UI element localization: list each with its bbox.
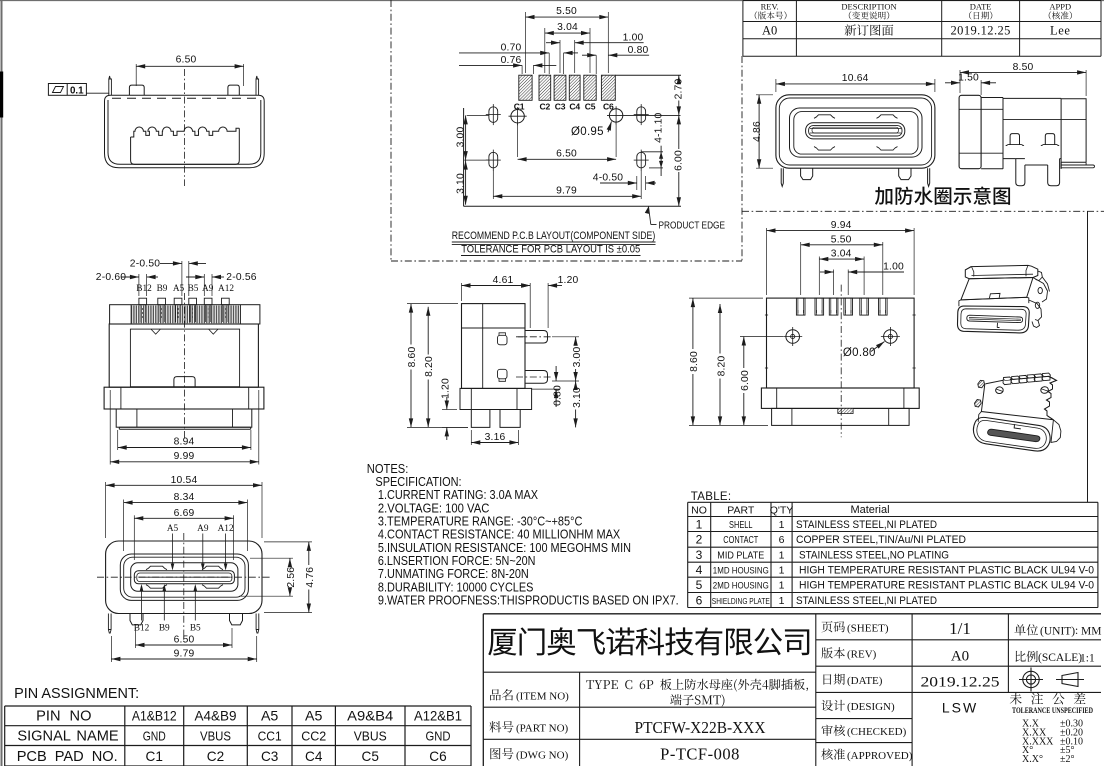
svg-text:4.76: 4.76: [305, 567, 316, 588]
svg-text:RECOMMEND P.C.B LAYOUT(COMPONE: RECOMMEND P.C.B LAYOUT(COMPONENT SIDE): [452, 230, 656, 242]
pcb dim 5.50: [525, 12, 527, 73]
svg-text:Material: Material: [850, 504, 889, 516]
view E bottom strip: [119, 426, 250, 428]
svg-text:9.99: 9.99: [174, 451, 195, 462]
view F dim 1.20 bottom: [442, 409, 457, 411]
pcb pad labels: [514, 101, 614, 111]
svg-text:3.00: 3.00: [572, 347, 583, 368]
svg-text:1:1: 1:1: [1080, 653, 1095, 665]
svg-text:9.94: 9.94: [831, 220, 852, 231]
svg-text:1: 1: [779, 550, 785, 562]
svg-text:Ø0.80: Ø0.80: [843, 347, 876, 359]
svg-text:2.70: 2.70: [673, 79, 684, 100]
svg-text:5.50: 5.50: [831, 234, 852, 245]
pcb dim 1.00: [559, 40, 561, 73]
view A side wire pin right: [256, 76, 259, 95]
view F dim 4.61: [461, 283, 463, 301]
svg-text:4.61: 4.61: [493, 275, 514, 286]
layout separator dash-dot vertical left of PCB panel: [390, 0, 392, 261]
svg-text:(SCALE): (SCALE): [1038, 652, 1082, 664]
view E dim 2-0.56: [203, 274, 205, 296]
svg-text:3: 3: [696, 548, 703, 562]
svg-text:TABLE:: TABLE:: [691, 491, 732, 503]
svg-text:10.64: 10.64: [842, 73, 869, 84]
company name: [488, 627, 809, 655]
svg-text:6.50: 6.50: [556, 148, 577, 159]
view D2 latch dimples: [1006, 144, 1024, 147]
svg-text:(REV): (REV): [847, 649, 877, 661]
svg-text:3.04: 3.04: [557, 22, 578, 33]
svg-text:Lee: Lee: [1050, 24, 1071, 38]
view D wire pin left: [781, 168, 783, 186]
svg-text:CC1: CC1: [258, 729, 282, 744]
parts table rows: [696, 517, 1094, 607]
svg-text:C6: C6: [429, 749, 446, 764]
view I centerlines: [183, 533, 185, 640]
svg-text:2-0.56: 2-0.56: [226, 272, 256, 283]
svg-text:A12&B1: A12&B1: [414, 709, 462, 725]
revision row description 新订图面: [845, 24, 894, 35]
svg-text:PTCFW-X22B-XXX: PTCFW-X22B-XXX: [635, 718, 766, 737]
svg-text:3.10: 3.10: [456, 173, 467, 194]
view A mounting pin left: [129, 85, 144, 95]
unit cell: [1014, 624, 1038, 635]
item no label: [490, 689, 513, 700]
svg-text:2019.12.25: 2019.12.25: [921, 675, 1000, 691]
view F upper mount leg: [525, 331, 548, 344]
view G center tab: [838, 408, 853, 413]
view E terminals: [139, 298, 229, 322]
view G dim 6.00: [740, 336, 783, 338]
title block outer grid: [483, 614, 1101, 766]
svg-text:REV.: REV.: [761, 2, 779, 12]
view I outer body: [106, 541, 262, 614]
pcb dim 6.00: [678, 115, 680, 149]
svg-text:(ITEM NO): (ITEM NO): [516, 691, 569, 703]
svg-text:6.69: 6.69: [174, 508, 195, 519]
svg-text::: :: [1075, 625, 1078, 637]
svg-text:LSW: LSW: [942, 700, 978, 716]
view D leg right: [899, 168, 911, 179]
pin table rows: [17, 709, 462, 765]
svg-text:8.20: 8.20: [716, 356, 727, 377]
svg-text:B9: B9: [157, 284, 168, 294]
view F lower mount leg: [525, 371, 548, 384]
view D2 dim 1.50: [980, 80, 982, 95]
view E dim 9.99: [109, 390, 111, 465]
svg-text:X.X°: X.X°: [1022, 754, 1043, 765]
view I tongue slot: [131, 563, 238, 592]
svg-text:1.00: 1.00: [623, 32, 644, 43]
svg-text:PIN NO: PIN NO: [36, 709, 91, 725]
view G dim 1.00: [833, 270, 835, 296]
svg-text:0.80: 0.80: [552, 385, 563, 406]
svg-text:8.20: 8.20: [424, 356, 435, 377]
view G holes: [786, 330, 800, 344]
svg-text:(PART NO): (PART NO): [516, 723, 569, 735]
view G dim 9.94: [766, 228, 768, 295]
svg-text:PCB PAD NO.: PCB PAD NO.: [17, 749, 118, 765]
product edge label: [645, 207, 649, 214]
svg-text:A0: A0: [951, 649, 969, 665]
svg-text:A9&B4: A9&B4: [347, 709, 393, 725]
svg-text:C3: C3: [261, 749, 278, 764]
svg-text:NO: NO: [691, 505, 707, 517]
revision table grid: [743, 1, 1101, 57]
view F dim 8.20: [427, 307, 429, 355]
view F bottom flange: [460, 388, 532, 409]
svg-text:2-0.60: 2-0.60: [96, 272, 126, 283]
view D shell ring 1: [790, 108, 923, 157]
view E serration band: [110, 305, 260, 324]
title block right labels: [822, 621, 845, 632]
svg-text:STAINLESS STEEL,NI PLATED: STAINLESS STEEL,NI PLATED: [796, 519, 937, 531]
svg-text:B9: B9: [159, 624, 170, 634]
pcb hole right centerline to dim: [607, 114, 681, 116]
view F dim 3.16: [470, 430, 472, 445]
pcb dim 9.79: [492, 170, 494, 199]
view F latch dimples: [498, 335, 508, 345]
view G body: [767, 298, 915, 388]
view G centerline: [840, 285, 842, 438]
svg-text:A9: A9: [197, 524, 209, 534]
svg-text:HIGH TEMPERATURE RESISTANT PLA: HIGH TEMPERATURE RESISTANT PLASTIC BLACK…: [799, 565, 1094, 577]
svg-text:COPPER STEEL,TIN/Au/NI PLATED: COPPER STEEL,TIN/Au/NI PLATED: [796, 534, 966, 546]
view E centerline: [184, 293, 186, 440]
svg-text:1/1: 1/1: [949, 619, 971, 638]
left margin black mark: [0, 72, 3, 118]
svg-text:B5: B5: [188, 284, 199, 294]
pcb dim 4-1.10: [641, 151, 663, 153]
view F dim 8.60: [407, 303, 458, 305]
view D outer waterproof ring: [776, 95, 935, 168]
pcb hole left: [511, 110, 524, 123]
svg-text:1.00: 1.00: [883, 262, 904, 273]
svg-text:0.80: 0.80: [628, 45, 649, 56]
pcb dim 0.76: [513, 63, 522, 67]
view E dim 8.94: [117, 430, 119, 450]
svg-text:1: 1: [779, 580, 785, 592]
view A center line: [183, 69, 185, 186]
svg-text:(DATE): (DATE): [847, 675, 883, 687]
svg-text:A12: A12: [218, 524, 234, 534]
product edge outline: [615, 74, 681, 76]
svg-text:(APPROVED): (APPROVED): [847, 750, 913, 762]
pcb dim 4-0.50: [636, 176, 638, 190]
svg-text:9.79: 9.79: [556, 185, 577, 196]
svg-text:4.86: 4.86: [752, 121, 763, 142]
svg-text:1: 1: [779, 595, 785, 607]
view D2 rear block: [1061, 99, 1086, 169]
svg-text:TOLERANCE FOR PCB LAYOUT IS ±0: TOLERANCE FOR PCB LAYOUT IS ±0.05: [461, 244, 640, 256]
svg-text:1.20: 1.20: [558, 275, 579, 286]
svg-text:2-0.50: 2-0.50: [130, 259, 160, 270]
svg-text:SHELL: SHELL: [729, 519, 753, 531]
svg-text:C1: C1: [146, 749, 163, 764]
svg-text:B12: B12: [136, 284, 152, 294]
flatness leader: [86, 92, 109, 94]
view E center latch: [174, 377, 195, 387]
svg-text:5: 5: [696, 578, 703, 592]
tolerance rows: [1022, 719, 1083, 766]
svg-text:8.60: 8.60: [689, 351, 700, 372]
svg-text:PRODUCT EDGE: PRODUCT EDGE: [659, 220, 726, 231]
pin table grid: [5, 706, 471, 766]
svg-text:A12: A12: [218, 284, 234, 294]
view E mid flange: [104, 387, 264, 409]
view G flange: [761, 388, 919, 408]
svg-text:C5: C5: [585, 101, 596, 111]
svg-text:2MD HOUSING: 2MD HOUSING: [713, 581, 769, 592]
view D latch bumps: [814, 115, 835, 119]
svg-text:0.70: 0.70: [501, 43, 522, 54]
view A top dashed EMI band: [112, 97, 257, 99]
svg-text:A5: A5: [305, 709, 322, 725]
view I dim 8.34: [123, 500, 125, 552]
dwg no label: [490, 748, 513, 759]
view A side wire pin left: [109, 76, 112, 95]
view F dim 0.80: [532, 388, 560, 390]
svg-text:Ø0.95: Ø0.95: [571, 126, 604, 138]
view A dim 6.50: [135, 64, 137, 86]
svg-text:3.10: 3.10: [572, 387, 583, 408]
svg-text:6.50: 6.50: [174, 634, 195, 645]
view I bottom contact leaders: [141, 586, 143, 621]
svg-text:VBUS: VBUS: [354, 729, 387, 744]
item name value: [586, 679, 808, 692]
svg-text:1: 1: [779, 519, 785, 531]
isometric view 2: [1003, 373, 1050, 385]
svg-text:B12: B12: [134, 624, 150, 634]
svg-text:1.50: 1.50: [958, 72, 979, 83]
layout separator dash-dot bottom of PCB panel: [391, 260, 742, 262]
view G legs: [772, 408, 910, 425]
view I tongue: [134, 571, 234, 584]
view I dim 4.76: [264, 541, 312, 543]
svg-text:B5: B5: [190, 624, 201, 634]
view F dim 3.00 right: [552, 336, 579, 338]
view I top contact leaders: [172, 534, 174, 569]
svg-text:8.34: 8.34: [174, 492, 195, 503]
svg-text:(SHEET): (SHEET): [847, 622, 889, 634]
view G dim 8.20: [719, 304, 721, 354]
part no label: [489, 721, 513, 732]
svg-text:0.1: 0.1: [70, 85, 84, 96]
view E dim 2-0.60: [138, 274, 140, 296]
view F body: [462, 304, 526, 389]
svg-text:C5: C5: [362, 749, 379, 764]
svg-text:MID PLATE: MID PLATE: [717, 551, 764, 562]
projection symbol cone: [1056, 673, 1084, 687]
view D2 rear foot: [1061, 162, 1094, 168]
svg-text:4: 4: [696, 563, 703, 577]
pcb dim 0.80: [587, 53, 596, 57]
svg-text:CC2: CC2: [301, 729, 326, 744]
svg-text:VBUS: VBUS: [200, 729, 231, 744]
view D2 legs: [1016, 159, 1025, 186]
svg-text:8.60: 8.60: [407, 347, 418, 368]
view G dim 8.60: [689, 297, 763, 299]
notes lines: [375, 474, 678, 608]
svg-text:1MD HOUSING: 1MD HOUSING: [713, 566, 769, 577]
svg-text:C4: C4: [569, 101, 580, 111]
svg-text:A1&B12: A1&B12: [132, 709, 177, 725]
view F lower leg centerline: [516, 376, 552, 378]
svg-text:STAINLESS STEEL,NO PLATING: STAINLESS STEEL,NO PLATING: [799, 550, 949, 562]
svg-text:5.50: 5.50: [556, 6, 577, 17]
svg-text:6: 6: [779, 534, 785, 546]
svg-text:A5: A5: [173, 284, 185, 294]
svg-text:1.20: 1.20: [441, 378, 452, 399]
view I dim 6.69: [133, 515, 135, 560]
svg-text:HIGH TEMPERATURE RESISTANT PLA: HIGH TEMPERATURE RESISTANT PLASTIC BLACK…: [799, 580, 1094, 592]
pcb hole right: [609, 109, 622, 122]
svg-text:SHIELDING PLATE: SHIELDING PLATE: [712, 597, 770, 606]
svg-text:9.79: 9.79: [174, 648, 195, 659]
svg-text:CONTACT: CONTACT: [723, 535, 758, 546]
svg-text:9.WATER PROOFNESS:THISPRODUCTI: 9.WATER PROOFNESS:THISPRODUCTIS BASED ON…: [378, 593, 679, 608]
view I latch bumps: [146, 566, 167, 570]
svg-text:4-1.10: 4-1.10: [654, 112, 665, 142]
svg-text:1: 1: [779, 565, 785, 577]
svg-text:8.50: 8.50: [1013, 62, 1034, 73]
view D dim 10.64: [775, 79, 777, 92]
view E lower block: [116, 409, 252, 427]
view D tongue slot: [806, 123, 905, 139]
view D shell ring 2: [794, 112, 918, 155]
svg-text:8.94: 8.94: [174, 437, 195, 448]
view E terminal labels: [136, 284, 234, 294]
view I legs: [130, 614, 143, 625]
svg-text:6.00: 6.00: [673, 150, 684, 171]
view G dim 3.04: [818, 257, 820, 296]
view A front shell outline: [105, 95, 265, 167]
svg-text:PART: PART: [727, 505, 755, 517]
view D2 main shell: [1003, 98, 1061, 169]
view F upper leg centerline: [516, 336, 552, 338]
view I dim 6.50: [135, 628, 137, 648]
svg-text:MM: MM: [1081, 626, 1101, 638]
svg-text:A0: A0: [762, 24, 777, 38]
view A shell inner wall: [108, 100, 261, 164]
view E inner housing: [130, 329, 239, 387]
view D2 dim 8.50: [959, 70, 961, 93]
svg-text:SIGNAL NAME: SIGNAL NAME: [17, 729, 118, 745]
svg-text:A5: A5: [167, 524, 179, 534]
page border: [0, 0, 1104, 2]
svg-text:APPD: APPD: [1049, 2, 1071, 12]
layout separator dash-dot below waterproof views: [742, 210, 1104, 212]
svg-text:A5: A5: [261, 709, 278, 725]
view G side notches: [765, 314, 768, 316]
svg-text:TOLERANCE UNSPECIFIED: TOLERANCE UNSPECIFIED: [1012, 706, 1093, 715]
view G terminal pads: [796, 298, 887, 315]
svg-text:0.76: 0.76: [501, 55, 522, 66]
view D leg left: [801, 168, 813, 179]
svg-text:C3: C3: [555, 101, 566, 111]
view E shell: [109, 324, 258, 387]
svg-text:DATE: DATE: [970, 2, 992, 12]
pcb dim 3.00 3.10: [467, 114, 489, 116]
svg-text:P-TCF-008: P-TCF-008: [660, 745, 740, 764]
view D ring inner line: [779, 98, 931, 165]
view I dim 10.54: [105, 482, 107, 538]
svg-text:3.04: 3.04: [831, 249, 852, 260]
svg-text:STAINLESS STEEL,NI PLATED: STAINLESS STEEL,NI PLATED: [796, 595, 937, 607]
isometric view 1: [965, 265, 1038, 278]
view D wire pin right: [928, 168, 930, 186]
waterproof caption: [875, 186, 1010, 204]
pcb dim 3.04: [544, 28, 546, 73]
pcb dim 2.70: [678, 75, 680, 77]
view I dim 2.56: [250, 557, 293, 559]
svg-text:PIN ASSIGNMENT:: PIN ASSIGNMENT:: [14, 686, 139, 702]
view I wire pins: [108, 614, 111, 634]
svg-text:Q'TY: Q'TY: [770, 505, 794, 517]
view G dim 5.50: [800, 242, 802, 295]
svg-text:(DESIGN): (DESIGN): [847, 701, 895, 713]
svg-text:(CHECKED): (CHECKED): [847, 726, 907, 738]
pcb slot ovals: [489, 107, 498, 123]
view A mounting pin right: [228, 85, 239, 95]
flatness tolerance frame: [48, 84, 86, 96]
svg-text:C2: C2: [207, 749, 224, 764]
right inner frame line: [1087, 211, 1089, 502]
view D2 left section: [981, 98, 1003, 169]
scale cell: [1015, 651, 1037, 662]
view D2 front ring: [959, 95, 981, 168]
svg-text:3.00: 3.00: [456, 127, 467, 148]
svg-text:GND: GND: [426, 729, 451, 744]
view I ring groove inner: [124, 557, 245, 597]
svg-text:6: 6: [696, 593, 703, 607]
view F dim 1.20 top: [547, 283, 549, 328]
view I ring groove outer: [120, 554, 248, 600]
view A tongue contour with contact bumps: [131, 127, 240, 164]
view D tongue: [809, 126, 902, 136]
svg-text:2.56: 2.56: [286, 567, 297, 588]
svg-text:4-0.50: 4-0.50: [593, 172, 623, 183]
svg-text:2019.12.25: 2019.12.25: [951, 24, 1011, 38]
svg-text:A9: A9: [202, 284, 214, 294]
svg-text:3.16: 3.16: [485, 432, 506, 443]
tolerance unspecified: [1010, 693, 1086, 705]
view F legs: [471, 410, 490, 428]
svg-text:C2: C2: [540, 101, 551, 111]
projection symbol target: [1019, 668, 1043, 692]
view I dim 9.79: [110, 636, 112, 662]
pcb dim 0.70: [540, 51, 549, 55]
svg-text:10.54: 10.54: [171, 475, 198, 486]
svg-text:2: 2: [696, 532, 703, 546]
svg-text:(UNIT): (UNIT): [1040, 626, 1075, 638]
svg-text:DESCRIPTION: DESCRIPTION: [841, 2, 896, 12]
view D dim 4.86: [756, 94, 773, 96]
svg-text:±2°: ±2°: [1060, 754, 1075, 765]
svg-text:GND: GND: [143, 729, 166, 744]
layout separator dash-dot vertical right of PCB panel: [741, 56, 743, 261]
svg-text:A4&B9: A4&B9: [195, 709, 237, 725]
view F dim 3.10: [575, 381, 577, 386]
parts table grid: [688, 502, 1098, 607]
pcb dim 6.50: [517, 123, 519, 157]
svg-text:1: 1: [696, 517, 703, 531]
svg-text:6.50: 6.50: [176, 55, 197, 66]
pcb pads C1-C6 hatched: [519, 75, 616, 100]
svg-text:(DWG NO): (DWG NO): [516, 749, 569, 761]
svg-text:6.00: 6.00: [740, 370, 751, 391]
view E dim 2-0.50: [181, 261, 183, 296]
